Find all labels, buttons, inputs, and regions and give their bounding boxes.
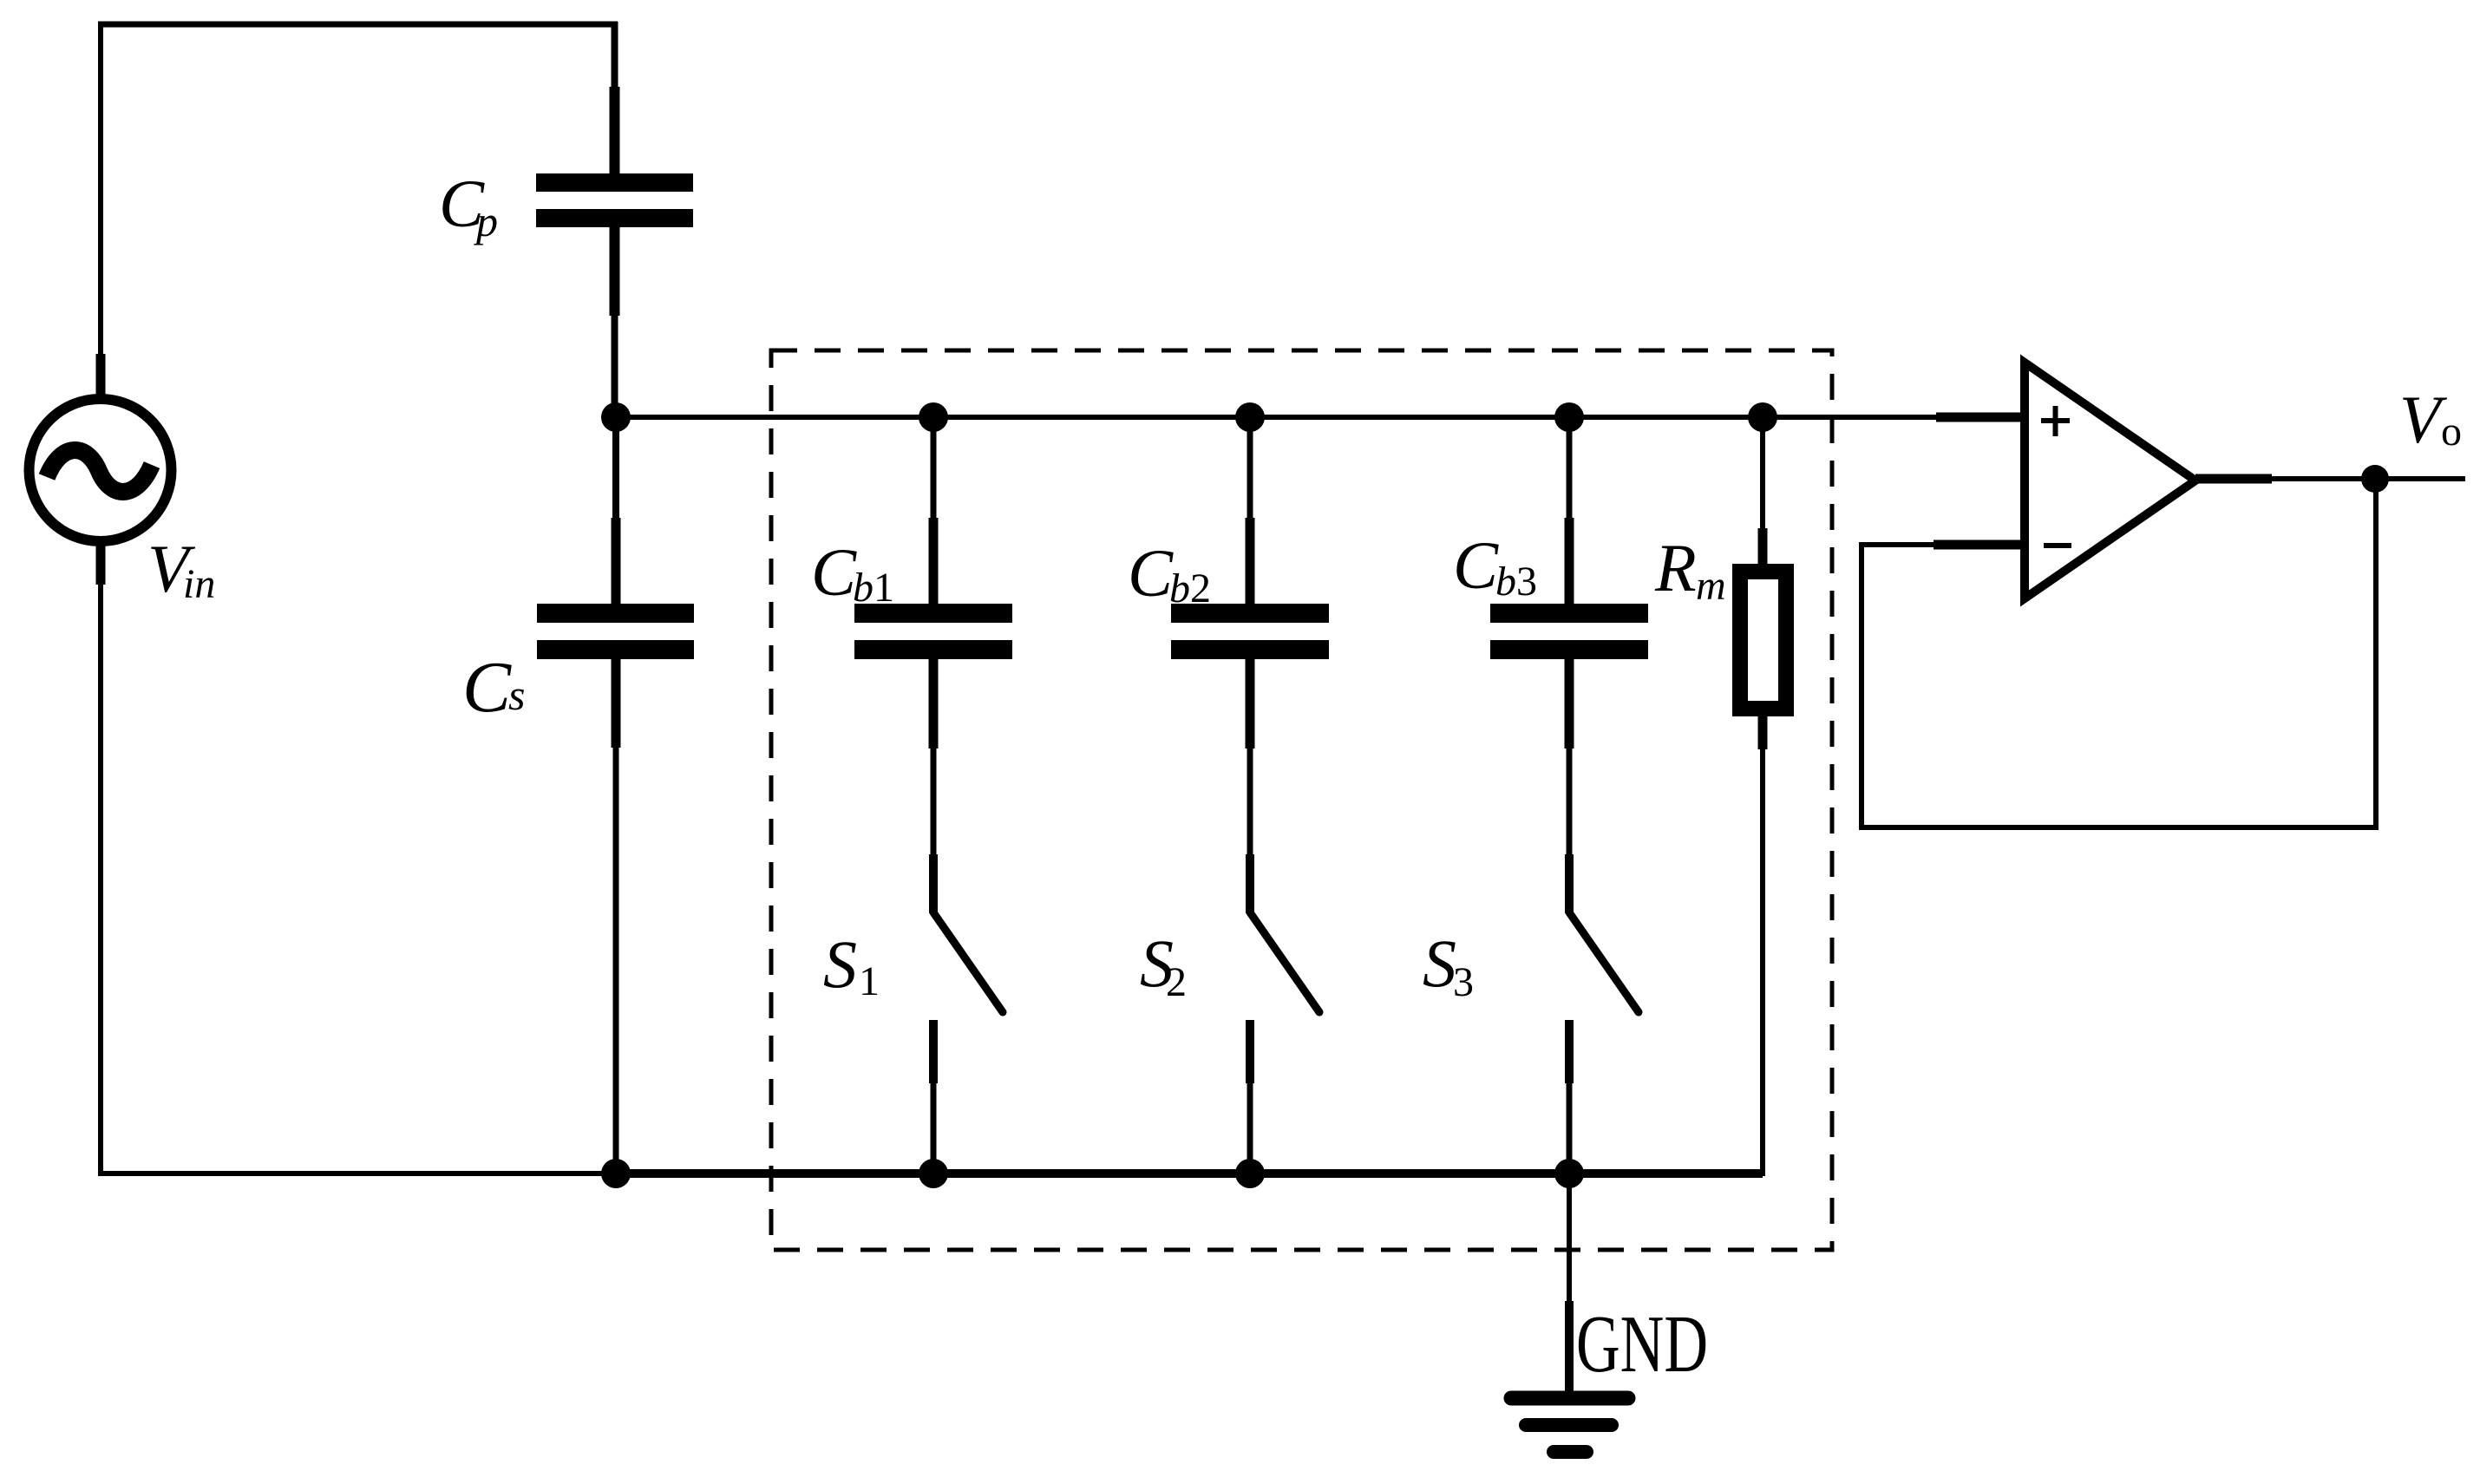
ground bar 2 (1526, 1418, 1612, 1432)
wire S3 bottom thin (1567, 1083, 1573, 1173)
node branch2 top (1235, 402, 1265, 432)
wire Rm top lead thick (1758, 528, 1768, 572)
svg-text:S: S (1423, 925, 1456, 1001)
node Vo (2361, 465, 2389, 493)
wire Cb2 bottom lead thick (1246, 659, 1255, 749)
node junction Cp/Cs (601, 402, 631, 432)
wire output lead thick (2195, 474, 2272, 484)
wire branch3 top thin (1567, 417, 1573, 518)
op-amp minus sign (2044, 543, 2071, 548)
node branch1 top (919, 402, 948, 432)
wire Cb1 top lead thick (929, 518, 939, 605)
node Cs bottom (601, 1159, 631, 1188)
wire Cb1 to switch thin (931, 749, 937, 854)
wire S2 bottom thin (1247, 1083, 1253, 1173)
switch S2 bottom contact thick (1246, 1020, 1254, 1083)
switch S2 top contact thick (1246, 854, 1254, 913)
switch S3 top contact thick (1565, 854, 1574, 913)
switch S2 blade (1250, 912, 1319, 1012)
wire left vertical (Vin top) (98, 22, 103, 354)
svg-text:C: C (811, 534, 857, 610)
svg-text:C: C (462, 647, 512, 728)
svg-text:b3: b3 (1495, 559, 1537, 605)
wire Cp top lead thin (612, 22, 618, 87)
wire Cb1 bottom lead thick (929, 659, 939, 749)
svg-text:b2: b2 (1169, 565, 1211, 611)
wire Cs bottom lead thick (612, 659, 621, 748)
wire Vin top lead thick (96, 354, 106, 396)
ground bar 3 (1554, 1445, 1587, 1459)
wire S1 bottom thin (931, 1083, 937, 1173)
wire Rm top thin (1760, 417, 1765, 528)
wire branch2 top thin (1247, 417, 1253, 518)
wire main horizontal (616, 415, 1936, 420)
node branch3 top (1554, 402, 1584, 432)
capacitor Cb1 (854, 604, 1012, 623)
svg-text:GND: GND (1576, 1299, 1708, 1389)
ground bar 1 (1511, 1391, 1628, 1406)
op-amp U1 triangle (2025, 363, 2195, 598)
node branch2 bottom (1235, 1159, 1265, 1188)
svg-text:o: o (2441, 409, 2462, 454)
wire GND stem thin (1567, 1173, 1572, 1301)
switch S1 blade (933, 912, 1003, 1012)
wire branch1 top thin (931, 417, 937, 518)
switch S1 top contact thick (929, 854, 938, 913)
wire Cp bottom lead thick (610, 227, 620, 316)
dashed box (switched capacitor bank boundary) (771, 350, 1832, 1250)
svg-text:in: in (183, 561, 215, 607)
capacitor Cp (536, 173, 693, 192)
wire op-amp plus input lead thick (1936, 413, 2025, 422)
svg-text:b1: b1 (853, 565, 894, 611)
svg-text:m: m (1696, 563, 1726, 609)
svg-text:s: s (508, 670, 525, 719)
svg-text:C: C (1128, 535, 1174, 611)
source Vin circle (29, 399, 172, 541)
wire op-amp minus input lead thick (1934, 540, 2025, 550)
wire Vin bottom vertical (98, 585, 103, 1176)
wire Cb3 to switch thin (1567, 749, 1573, 854)
wire Cb2 to switch thin (1247, 749, 1253, 854)
source Vin sine (47, 450, 152, 492)
wire Cb3 bottom lead thick (1565, 659, 1574, 749)
svg-text:p: p (474, 197, 498, 245)
wire Cb2 top lead thick (1246, 518, 1255, 605)
wire Vin bottom lead thick (96, 545, 106, 585)
capacitor Cb2 (1171, 604, 1329, 623)
capacitor Cb3 (1490, 604, 1648, 623)
wire Cp top lead thick (610, 87, 620, 174)
svg-text:2: 2 (1166, 959, 1187, 1005)
wire Rm bottom thin (1760, 749, 1765, 1176)
node Rm top (1748, 402, 1777, 432)
svg-text:S: S (823, 926, 857, 1002)
wire GND stem thick (1565, 1301, 1574, 1398)
resistor Rm (1740, 572, 1786, 709)
wire Cp to node thin (612, 316, 618, 417)
wire Cs top lead thick (612, 518, 621, 605)
wire feedback loop (1862, 479, 2376, 827)
switch S1 bottom contact thick (929, 1020, 938, 1083)
svg-text:1: 1 (859, 958, 880, 1004)
svg-text:3: 3 (1453, 959, 1474, 1005)
svg-text:R: R (1654, 530, 1697, 605)
switch S3 blade (1569, 912, 1639, 1012)
node branch1 bottom (919, 1159, 948, 1188)
wire Cs bottom thin (613, 748, 619, 1173)
op-amp plus sign (2041, 406, 2070, 436)
capacitor Cs (537, 604, 694, 623)
wire Cs top thin (612, 417, 619, 518)
node branch3 bottom (1554, 1159, 1584, 1188)
wire Rm bottom lead thick (1758, 713, 1768, 749)
wire top horizontal (98, 22, 618, 28)
wire bottom left thin (98, 1171, 617, 1176)
wire bottom right thick (617, 1169, 1763, 1178)
svg-text:C: C (1453, 527, 1499, 603)
switch S3 bottom contact thick (1565, 1020, 1574, 1083)
wire Cb3 top lead thick (1565, 518, 1574, 605)
wire output thin (2272, 476, 2465, 481)
